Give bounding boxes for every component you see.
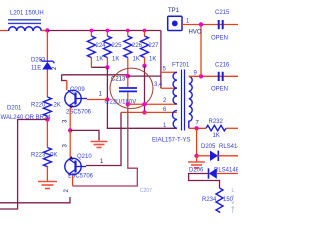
ground (right, secondary) [188, 162, 205, 168]
wire: D203 to R220 [46, 70, 48, 98]
wire: bottom return rail [0, 197, 70, 203]
node: C213 top junction [126, 74, 130, 78]
node: base feed junction [105, 65, 109, 69]
capacitor C216 [219, 72, 223, 81]
svg-text:1K: 1K [149, 57, 156, 63]
svg-text:WAL240 OR BR24: WAL240 OR BR24 [1, 115, 52, 121]
svg-text:227: 227 [149, 43, 160, 49]
wire: rail down to D203 [46, 31, 48, 61]
svg-text:OPEN: OPEN [211, 87, 228, 93]
wire: Q209 collector lead [66, 81, 68, 91]
node: HV rail junction [45, 28, 49, 32]
wire: Q209 emitter down [69, 108, 71, 131]
svg-text:R220: R220 [31, 103, 46, 109]
svg-text:Q210: Q210 [77, 154, 92, 160]
svg-text:C216: C216 [215, 63, 230, 69]
wire: V2 C213 bottom down, staircase to emitter rail [73, 104, 138, 186]
wire: junction to ground stub [70, 130, 99, 140]
wire: R232 to right edge [226, 127, 238, 129]
node: pin9 junction [199, 74, 203, 78]
zener diode D203 [40, 59, 54, 69]
wire: AC input to L201 [0, 30, 9, 32]
transformer FT201 [173, 70, 193, 131]
svg-text:2K: 2K [54, 103, 61, 109]
svg-text:FT201: FT201 [172, 63, 190, 69]
capacitor C215 [219, 20, 223, 29]
resistor R220 [43, 97, 51, 116]
node: pin2/R227-column crossing [142, 102, 146, 106]
inductor L201 [8, 20, 41, 31]
wire: R220 to junction [46, 116, 48, 120]
node: R225 top [106, 29, 110, 33]
resistor R224 [87, 31, 95, 68]
wire: V1 pin6 line down to Q210 base [86, 112, 121, 165]
svg-text:3,4: 3,4 [154, 82, 163, 88]
svg-text:L201 150UH: L201 150UH [10, 11, 44, 17]
svg-text:D203: D203 [31, 58, 46, 64]
wire: D206 anode to right edge [217, 173, 238, 175]
node: D205 junction [194, 154, 198, 158]
svg-text:RLS4148: RLS4148 [219, 144, 238, 150]
wire: Q210 emitter lead [72, 176, 74, 187]
wire: R227 column down to pin6 line [144, 66, 146, 113]
svg-text:R232: R232 [209, 119, 224, 125]
wire: D206 cathode loop to R234 [189, 174, 220, 189]
wire: collector net horizontal [62, 74, 128, 76]
wire: HVO vertical [200, 25, 202, 77]
wire: Q209 base node down then right (pin1 line) [107, 100, 176, 129]
wire: pin7 down to D205 row [196, 128, 198, 156]
svg-text:11E: 11E [31, 66, 41, 72]
svg-text:225: 225 [112, 43, 123, 49]
wire: collector hook [62, 75, 67, 81]
ground (left, below R223) [38, 182, 57, 189]
svg-text:1K: 1K [133, 57, 140, 63]
wire: primary top tap vertical [160, 31, 162, 89]
svg-text:RLS4148: RLS4148 [214, 168, 238, 174]
wire: C213 top to primary tap column [128, 75, 161, 77]
svg-text:R223: R223 [31, 153, 46, 159]
wire: pin2 stub to winding [176, 103, 178, 105]
svg-text:l: l [232, 209, 233, 213]
wire: bottom-left stub [0, 203, 18, 209]
node: pin6 corner junction [142, 110, 146, 114]
svg-text:HVO: HVO [189, 30, 202, 36]
node: R227 mid node [142, 64, 146, 68]
svg-text:D206: D206 [189, 168, 204, 174]
wire: junction left and down to bridge output [18, 120, 48, 203]
wire: L201 to junction [41, 30, 47, 32]
node: HVO junction [199, 22, 203, 26]
node: R226 top [126, 29, 130, 33]
svg-text:TP1: TP1 [168, 8, 180, 14]
resistor R223 [43, 148, 51, 167]
wire: Q209 base lead to node [87, 99, 107, 101]
wire: junction down to Q210 collector [69, 130, 71, 158]
node: R227 top [143, 29, 147, 33]
transistor Q209 [65, 90, 87, 109]
wire: pin3,4 stub [161, 87, 177, 89]
resistor R225 [103, 31, 111, 68]
svg-text:D201: D201 [7, 106, 22, 112]
svg-text:EIAL157-T-YS: EIAL157-T-YS [152, 138, 190, 144]
svg-text:1K: 1K [213, 133, 220, 139]
transistor Q210 [65, 156, 86, 176]
wire: junction down to R223 [46, 120, 48, 148]
wire: pin9 output [189, 75, 238, 77]
svg-text:R234: R234 [202, 197, 217, 203]
highlight ellipse around C213 [110, 68, 153, 108]
svg-text:OPEN: OPEN [211, 36, 228, 42]
svg-text:0K: 0K [50, 153, 57, 159]
node: pin7 junction [194, 126, 198, 130]
wire: R223 to ground [46, 166, 48, 181]
diode D205 [210, 151, 218, 161]
svg-text:1K: 1K [96, 57, 103, 63]
wire: R224/R225 bottom bus [91, 66, 107, 68]
svg-text:Q209: Q209 [70, 87, 85, 93]
ground (middle, emitter) [91, 142, 108, 148]
svg-text:C215: C215 [215, 10, 230, 16]
resistor R234 [216, 188, 223, 213]
wire: HV top rail [47, 30, 160, 32]
svg-text:2SC5706: 2SC5706 [68, 174, 94, 180]
node: R224 top [90, 29, 94, 33]
node: Q209 base node [105, 97, 109, 101]
svg-text:1K: 1K [112, 57, 119, 63]
svg-text:C207: C207 [140, 188, 152, 194]
node: C213 bottom junction [126, 102, 130, 106]
wire: junction to ground stem [196, 156, 198, 162]
wire: TP1 to C215 [182, 24, 238, 26]
wire: pin2 line [128, 103, 177, 105]
wire: pin5 stub [161, 71, 177, 73]
diode D206 [209, 168, 217, 178]
resistor R227 [141, 31, 149, 66]
resistor R226 [124, 31, 132, 77]
wire: pin7 row [189, 127, 206, 129]
resistor R232 [206, 125, 226, 131]
capacitor C213 [119, 76, 137, 104]
node: emitter/collector junction [68, 128, 72, 132]
svg-text:D205: D205 [201, 144, 216, 150]
node: R220/R223 junction [45, 117, 49, 121]
test point TP1 [168, 16, 182, 30]
wire: junction down to Q209 base [106, 67, 108, 99]
wire: pin6 line [121, 111, 177, 113]
wire: junction to D205 anode [197, 155, 210, 157]
wire: D205 cathode to right edge [218, 155, 238, 157]
